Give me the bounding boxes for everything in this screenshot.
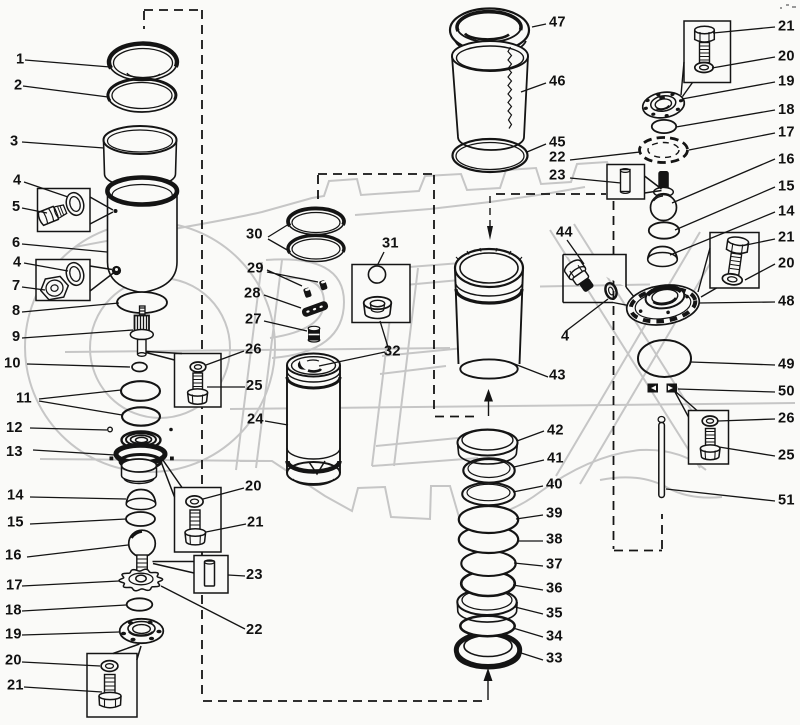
svg-text:44: 44 <box>556 225 573 241</box>
svg-text:28: 28 <box>244 286 261 302</box>
svg-text:7: 7 <box>12 278 20 294</box>
svg-text:8: 8 <box>12 303 20 319</box>
svg-text:29: 29 <box>247 261 264 277</box>
svg-text:20: 20 <box>778 256 795 272</box>
svg-text:32: 32 <box>384 344 401 360</box>
svg-text:33: 33 <box>546 651 563 667</box>
svg-text:21: 21 <box>778 230 795 246</box>
svg-text:16: 16 <box>778 152 795 168</box>
svg-text:4: 4 <box>561 329 570 345</box>
svg-text:17: 17 <box>778 125 795 141</box>
svg-text:40: 40 <box>546 477 563 493</box>
svg-text:36: 36 <box>546 581 563 597</box>
svg-text:5: 5 <box>12 199 20 215</box>
svg-text:17: 17 <box>6 578 23 594</box>
svg-text:21: 21 <box>778 19 795 35</box>
svg-text:22: 22 <box>549 150 566 166</box>
svg-text:27: 27 <box>245 312 262 328</box>
svg-text:48: 48 <box>778 294 795 310</box>
svg-text:45: 45 <box>549 135 566 151</box>
svg-text:26: 26 <box>778 411 795 427</box>
svg-text:47: 47 <box>549 15 566 31</box>
svg-text:20: 20 <box>5 653 22 669</box>
svg-text:25: 25 <box>778 448 795 464</box>
svg-text:35: 35 <box>546 606 563 622</box>
svg-text:38: 38 <box>546 532 563 548</box>
svg-text:21: 21 <box>247 515 264 531</box>
svg-text:50: 50 <box>778 384 795 400</box>
svg-text:9: 9 <box>12 329 20 345</box>
svg-text:43: 43 <box>549 368 566 384</box>
svg-text:4: 4 <box>13 173 22 189</box>
svg-text:24: 24 <box>247 412 264 428</box>
svg-text:2: 2 <box>14 78 22 94</box>
svg-text:16: 16 <box>5 548 22 564</box>
svg-text:1: 1 <box>16 52 24 68</box>
svg-text:15: 15 <box>778 179 795 195</box>
svg-text:4: 4 <box>13 255 22 271</box>
svg-text:49: 49 <box>778 357 795 373</box>
svg-text:18: 18 <box>778 102 795 118</box>
svg-text:10: 10 <box>4 356 21 372</box>
svg-text:30: 30 <box>246 227 263 243</box>
svg-text:6: 6 <box>12 235 20 251</box>
svg-text:19: 19 <box>5 627 22 643</box>
svg-text:22: 22 <box>246 622 263 638</box>
svg-text:11: 11 <box>16 391 32 407</box>
svg-text:18: 18 <box>5 603 22 619</box>
svg-text:13: 13 <box>6 444 23 460</box>
svg-text:23: 23 <box>246 567 263 583</box>
svg-text:42: 42 <box>547 423 564 439</box>
svg-text:39: 39 <box>546 506 563 522</box>
svg-text:31: 31 <box>382 236 399 252</box>
svg-text:3: 3 <box>10 134 18 150</box>
svg-text:20: 20 <box>245 479 262 495</box>
svg-text:21: 21 <box>7 678 24 694</box>
svg-text:20: 20 <box>778 49 795 65</box>
svg-text:14: 14 <box>7 488 24 504</box>
svg-text:23: 23 <box>549 168 566 184</box>
svg-text:26: 26 <box>245 342 262 358</box>
svg-text:19: 19 <box>778 74 795 90</box>
svg-text:37: 37 <box>546 557 563 573</box>
svg-text:41: 41 <box>547 451 564 467</box>
svg-text:46: 46 <box>549 74 566 90</box>
svg-text:14: 14 <box>778 204 795 220</box>
svg-text:12: 12 <box>6 420 23 436</box>
svg-text:15: 15 <box>7 515 24 531</box>
svg-text:51: 51 <box>778 493 795 509</box>
svg-text:25: 25 <box>246 378 263 394</box>
svg-text:34: 34 <box>546 629 563 645</box>
